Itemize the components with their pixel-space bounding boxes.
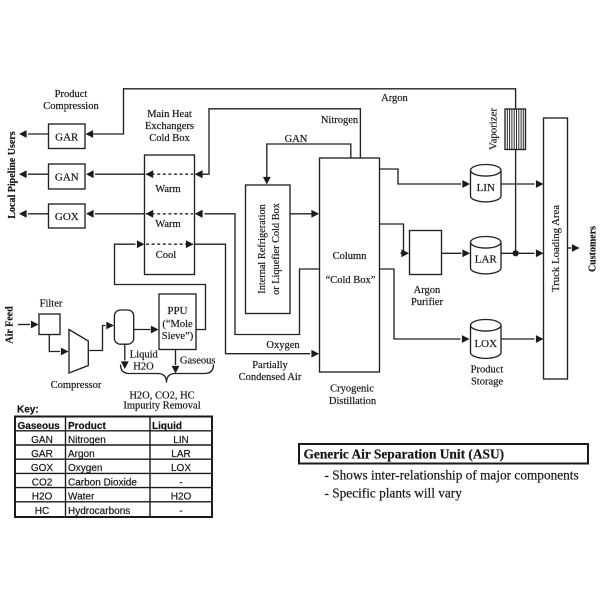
wire GAN feed from HX to GAN box [95, 173, 145, 175]
wire oxygen path (column left, around, into main HX warm2) [205, 214, 320, 335]
svg-text:LOX: LOX [171, 463, 191, 474]
wire internal box to column [290, 213, 318, 215]
svg-text:HC: HC [35, 506, 49, 517]
svg-text:Oxygen: Oxygen [68, 463, 102, 474]
svg-text:Internal Refrigeration: Internal Refrigeration [257, 204, 268, 293]
svg-text:Argon: Argon [68, 449, 95, 460]
svg-text:LIN: LIN [173, 435, 189, 446]
svg-text:Product: Product [68, 421, 106, 432]
svg-text:Gaseous: Gaseous [180, 356, 216, 367]
svg-text:Compression: Compression [43, 101, 99, 112]
svg-text:Vaporizer: Vaporizer [487, 108, 499, 150]
svg-text:H2O: H2O [32, 492, 53, 503]
vaporizer hatched box [505, 109, 526, 150]
svg-text:Product: Product [471, 364, 504, 375]
wire cool dashed passage [146, 243, 193, 245]
box main heat exchangers cold box [145, 155, 195, 275]
box filter [39, 314, 60, 335]
svg-text:GAN: GAN [31, 435, 53, 446]
svg-text:Condensed Air: Condensed Air [239, 372, 302, 383]
wire liquid H2O drop [124, 344, 126, 360]
svg-text:Cool: Cool [156, 250, 177, 261]
wire LAR to truck [501, 252, 535, 254]
wire LOX to truck [501, 338, 535, 340]
svg-text:Key:: Key: [17, 405, 39, 416]
wire warm1 dashed passage [146, 173, 193, 175]
svg-text:GOX: GOX [55, 211, 79, 223]
junction dot argon/LAR [513, 250, 519, 256]
wire GOX to pipeline [28, 213, 49, 215]
wire partially condensed air: cool exit to column [195, 244, 311, 354]
wire air feed to filter [18, 324, 30, 326]
svg-text:Storage: Storage [471, 376, 503, 387]
svg-text:GOX: GOX [31, 463, 54, 474]
svg-text:Cold Box: Cold Box [149, 133, 190, 144]
svg-text:(“Mole: (“Mole [162, 319, 193, 330]
wire column to argon purifier [380, 224, 404, 253]
wire warm2 dashed passage [146, 213, 193, 215]
key table [15, 417, 212, 518]
svg-text:Filter: Filter [40, 298, 63, 309]
svg-text:Liquid: Liquid [130, 349, 159, 360]
svg-text:Carbon Dioxide: Carbon Dioxide [68, 477, 137, 488]
svg-text:Local Pipeline Users: Local Pipeline Users [7, 131, 18, 218]
svg-text:Liquid: Liquid [152, 421, 182, 432]
wire GAN line (column top to internal refrigeration box) [267, 144, 351, 183]
box truck loading area [544, 118, 568, 379]
direct contact cooler (rounded box) [114, 310, 133, 344]
wire purifier to LAR [442, 252, 462, 254]
svg-text:Partially: Partially [252, 360, 288, 371]
wire nitrogen line (column top to main HX warm1) [196, 109, 360, 174]
box internal refrigeration [246, 185, 291, 314]
svg-text:Truck Loading Area: Truck Loading Area [550, 205, 562, 292]
svg-text:Sieve”): Sieve”) [162, 331, 194, 342]
svg-text:-: - [179, 506, 182, 517]
wire filter to compressor [49, 335, 60, 352]
svg-text:H2O: H2O [133, 362, 154, 373]
curly brace impurity removal [121, 365, 214, 383]
svg-text:Customers: Customers [588, 226, 599, 272]
svg-text:Main Heat: Main Heat [147, 109, 192, 120]
svg-text:Purifier: Purifier [411, 297, 444, 308]
title box Generic Air Separation Unit (ASU) [299, 444, 588, 464]
svg-text:Air Feed: Air Feed [5, 306, 16, 344]
wire cool path: PPU out, under HX, up into cool passage [115, 244, 206, 329]
wire column to LIN [380, 169, 462, 184]
wire column to LOX [380, 269, 461, 339]
wire GAR to pipeline [28, 133, 49, 135]
wire compressor to cooler [88, 326, 105, 351]
svg-text:Product: Product [55, 89, 88, 100]
box GOX [49, 204, 86, 228]
svg-text:Argon: Argon [414, 285, 441, 296]
svg-text:LOX: LOX [474, 338, 497, 350]
svg-text:Nitrogen: Nitrogen [68, 435, 106, 446]
svg-text:Hydrocarbons: Hydrocarbons [68, 506, 130, 517]
svg-text:Distillation: Distillation [329, 396, 377, 407]
svg-text:LAR: LAR [475, 254, 498, 266]
svg-text:“Cold Box”: “Cold Box” [326, 275, 376, 286]
svg-text:Gaseous: Gaseous [18, 421, 61, 432]
svg-text:-: - [179, 477, 182, 488]
svg-text:Argon: Argon [381, 93, 408, 104]
svg-text:Impurity Removal: Impurity Removal [123, 401, 200, 412]
svg-text:Warm: Warm [155, 219, 180, 230]
box GAR [49, 124, 86, 149]
svg-text:Exchangers: Exchangers [145, 121, 194, 132]
svg-text:Cryogenic: Cryogenic [330, 383, 374, 394]
svg-text:or Liquefier Cold Box: or Liquefier Cold Box [271, 202, 282, 295]
svg-text:CO2: CO2 [32, 477, 53, 488]
svg-text:Generic Air Separation Unit (A: Generic Air Separation Unit (ASU) [304, 447, 505, 462]
wire LIN to truck [501, 183, 535, 185]
svg-text:GAR: GAR [55, 132, 79, 144]
svg-text:- Shows inter-relationship of: - Shows inter-relationship of major comp… [325, 468, 579, 483]
svg-text:Nitrogen: Nitrogen [321, 115, 359, 126]
svg-text:GAN: GAN [55, 172, 79, 184]
svg-text:- Specific plants will vary: - Specific plants will vary [325, 486, 463, 501]
wire truck to customers [568, 247, 572, 249]
wire cooler to PPU [134, 329, 151, 331]
svg-text:LIN: LIN [477, 182, 495, 194]
svg-text:LAR: LAR [171, 449, 190, 460]
box GAN [49, 164, 86, 189]
tank LAR [471, 242, 502, 274]
box argon purifier [410, 231, 442, 275]
wire GOX feed from HX to GOX box [95, 213, 145, 215]
tank LIN [471, 170, 502, 202]
wire gaseous drop [175, 350, 177, 366]
svg-text:Column: Column [333, 251, 368, 262]
wire GAN to pipeline [28, 173, 49, 175]
svg-text:H2O: H2O [171, 492, 192, 503]
tank LOX [471, 325, 502, 358]
box column cold box [320, 158, 380, 372]
svg-text:PPU: PPU [167, 305, 187, 317]
compressor trapezoid [69, 330, 88, 374]
wire argon line (LAR junction up, across top, down to GAR) [87, 89, 516, 254]
svg-text:GAN: GAN [285, 134, 308, 145]
svg-text:GAR: GAR [31, 449, 53, 460]
svg-text:Oxygen: Oxygen [266, 340, 300, 351]
svg-text:Warm: Warm [155, 184, 180, 195]
box PPU [159, 294, 196, 350]
svg-text:Water: Water [68, 492, 95, 503]
svg-text:Compressor: Compressor [51, 380, 102, 391]
